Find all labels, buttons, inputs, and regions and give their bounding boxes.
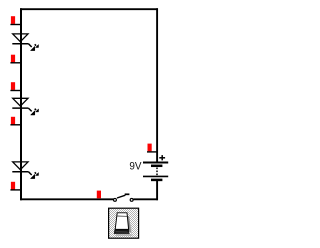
switch button rocker outer soft shadow — [130, 223, 133, 235]
wire right lower — [156, 181, 158, 201]
switch button rocker side shadow — [127, 215, 131, 232]
battery B1 plus sign — [159, 155, 165, 160]
pin marker below LED D3 — [10, 182, 21, 190]
switch button rocker front face — [114, 229, 130, 234]
wire left — [20, 8, 22, 200]
LED D2 — [12, 98, 38, 115]
pin marker battery positive — [147, 144, 158, 152]
LED D3 — [12, 162, 38, 179]
pin marker below LED D1 — [10, 55, 21, 63]
pin marker above LED D1 — [10, 16, 21, 24]
pin marker above LED D2 — [10, 82, 21, 90]
pin marker on bottom wire — [97, 191, 101, 199]
wire bottom-left — [20, 198, 113, 200]
switch button rocker drop shadow — [116, 234, 133, 236]
battery B1 — [143, 163, 168, 180]
pin marker below LED D2 — [10, 117, 21, 125]
switch S1 contact right — [130, 198, 133, 201]
wire bottom-right — [133, 198, 158, 200]
switch button rocker — [115, 213, 128, 230]
wire top — [20, 8, 158, 10]
wire right upper — [156, 8, 158, 162]
switch S1 contact left — [114, 198, 117, 201]
switch button rocker top edge line — [117, 215, 128, 217]
LED D1 — [12, 34, 38, 51]
svg-text:9V: 9V — [129, 161, 141, 173]
switch S1 lever — [117, 194, 129, 198]
switch button panel — [109, 208, 139, 238]
